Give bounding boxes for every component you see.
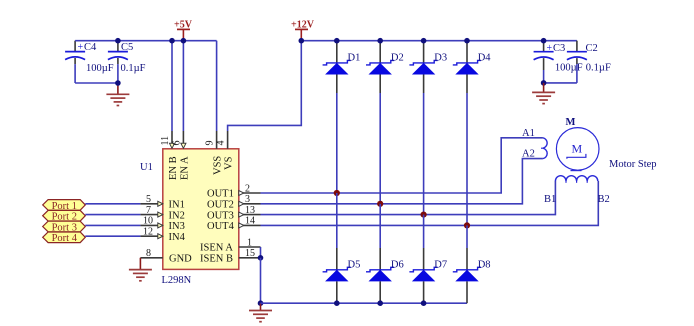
wire pin6 drop xyxy=(182,41,184,131)
svg-text:EN B: EN B xyxy=(168,156,179,180)
svg-text:IN3: IN3 xyxy=(169,221,185,232)
svg-text:IN1: IN1 xyxy=(169,200,185,211)
svg-text:C3: C3 xyxy=(553,43,565,54)
pin 9 VSS xyxy=(205,131,224,175)
svg-text:D8: D8 xyxy=(478,259,491,270)
wire D4 to OUT4 row xyxy=(466,93,468,225)
pin 10 IN3 xyxy=(140,216,184,233)
pin 8 GND xyxy=(140,248,192,265)
wire +5V rail xyxy=(75,40,217,42)
diode D3 xyxy=(409,41,447,93)
svg-text:IN2: IN2 xyxy=(169,210,185,221)
svg-text:0.1µF: 0.1µF xyxy=(121,63,146,74)
svg-text:6: 6 xyxy=(171,141,182,146)
port Port1 xyxy=(43,200,86,212)
wire D8 column xyxy=(466,225,468,248)
wire D6 column xyxy=(379,204,381,248)
svg-text:VS: VS xyxy=(224,156,235,170)
diode D5 xyxy=(323,248,361,303)
svg-text:OUT2: OUT2 xyxy=(207,200,234,211)
wire OUT2 to A2 xyxy=(261,159,543,204)
svg-text:4: 4 xyxy=(216,141,227,146)
capacitor C4 xyxy=(65,41,114,83)
ground at pin 8 xyxy=(129,258,152,281)
svg-text:C4: C4 xyxy=(84,42,97,53)
node D6 bottom junction xyxy=(377,300,383,306)
svg-text:2: 2 xyxy=(245,183,250,194)
svg-text:IN4: IN4 xyxy=(169,232,186,243)
svg-text:7: 7 xyxy=(146,205,151,216)
diode D6 xyxy=(366,248,404,303)
inductor winding B xyxy=(544,176,610,205)
svg-text:Motor Step: Motor Step xyxy=(609,159,657,170)
svg-text:A1: A1 xyxy=(522,128,535,139)
svg-text:A2: A2 xyxy=(522,149,535,160)
pin 5 IN1 xyxy=(140,194,184,211)
ground under C3 xyxy=(532,83,555,104)
svg-text:+: + xyxy=(78,42,84,53)
node OUT3 junction xyxy=(421,212,427,218)
diode D2 xyxy=(366,41,404,93)
node pin6 +5V junction xyxy=(181,38,187,44)
wire bottom rail xyxy=(261,302,468,304)
node OUT4 junction xyxy=(464,222,470,228)
wire pin1 to pin15 column xyxy=(260,247,262,258)
node OUT1 junction xyxy=(334,190,340,196)
wire Port3 to IN3 xyxy=(85,224,140,226)
svg-text:U1: U1 xyxy=(140,162,153,173)
wire +12V rail xyxy=(301,40,577,42)
svg-text:ISEN A: ISEN A xyxy=(200,243,233,254)
node OUT2 junction xyxy=(377,201,383,207)
op-amp U1 L298N body xyxy=(140,149,239,286)
motor M circle xyxy=(556,117,656,171)
svg-text:D6: D6 xyxy=(391,259,404,270)
svg-text:3: 3 xyxy=(245,194,250,205)
svg-text:14: 14 xyxy=(245,216,255,227)
wire D7 column xyxy=(423,215,425,248)
wire pin11 drop xyxy=(171,41,173,131)
diode D7 xyxy=(409,248,447,303)
port Port3 xyxy=(43,221,86,233)
inductor winding A xyxy=(522,128,547,160)
svg-text:1: 1 xyxy=(247,237,252,248)
ground at ISEN xyxy=(249,303,272,322)
svg-text:0.1µF: 0.1µF xyxy=(586,63,611,74)
wire OUT1 to A1 xyxy=(261,138,543,193)
svg-text:11: 11 xyxy=(160,136,171,146)
wire C4-C5 bottom xyxy=(75,82,118,84)
node D5 bottom junction xyxy=(334,300,340,306)
pin 12 IN4 xyxy=(140,226,185,243)
pin 6 EN A xyxy=(171,131,190,180)
svg-text:Port 4: Port 4 xyxy=(52,233,78,244)
svg-text:B1: B1 xyxy=(544,194,556,205)
svg-text:15: 15 xyxy=(245,248,255,259)
svg-text:13: 13 xyxy=(245,205,255,216)
wire +12V to pin 4 xyxy=(228,41,302,131)
wire D1 to OUT1 row xyxy=(336,93,338,193)
wire D2 to OUT2 row xyxy=(379,93,381,204)
svg-text:GND: GND xyxy=(169,254,192,265)
pin 13 OUT3 xyxy=(207,205,261,221)
svg-text:C2: C2 xyxy=(586,43,598,54)
power +5V xyxy=(174,20,193,41)
pin 14 OUT4 xyxy=(207,216,261,232)
node bottom ground junction xyxy=(258,300,264,306)
svg-text:D4: D4 xyxy=(478,53,492,64)
pin 1 ISEN A xyxy=(200,237,261,253)
node D7 bottom junction xyxy=(421,300,427,306)
port Port2 xyxy=(43,210,86,222)
pin 2 OUT1 xyxy=(207,183,261,199)
wire OUT3 to B1 xyxy=(261,181,556,215)
svg-text:D5: D5 xyxy=(348,259,361,270)
node C3 top junction xyxy=(541,38,547,44)
capacitor C2 xyxy=(567,41,611,83)
svg-text:C5: C5 xyxy=(121,42,133,53)
wire C3-C2 bottom xyxy=(544,82,577,84)
node pin11 junction xyxy=(169,38,175,44)
pin 11 EN B xyxy=(160,131,179,180)
svg-text:L298N: L298N xyxy=(162,275,192,286)
pin 15 ISEN B xyxy=(200,248,261,264)
svg-text:ISEN B: ISEN B xyxy=(200,254,233,265)
wire Port2 to IN2 xyxy=(85,214,140,216)
node C5 top junction xyxy=(115,38,121,44)
wire Port1 to IN1 xyxy=(85,203,140,205)
wire pin9 drop xyxy=(216,41,218,131)
svg-text:10: 10 xyxy=(143,216,153,227)
svg-text:100µF: 100µF xyxy=(555,63,583,74)
svg-text:EN A: EN A xyxy=(179,156,190,180)
svg-text:VSS: VSS xyxy=(213,156,224,175)
node +12V junction xyxy=(299,38,305,44)
svg-text:D2: D2 xyxy=(391,53,404,64)
pin 7 IN2 xyxy=(140,205,184,222)
power +12V xyxy=(291,20,315,41)
wire D5 column xyxy=(336,193,338,248)
svg-text:B2: B2 xyxy=(598,194,610,205)
diode D1 xyxy=(323,41,361,93)
node D4 rail junction xyxy=(464,38,470,44)
svg-text:12: 12 xyxy=(143,226,153,237)
svg-text:OUT4: OUT4 xyxy=(207,221,235,232)
node D3 rail junction xyxy=(421,38,427,44)
svg-text:D3: D3 xyxy=(434,53,447,64)
capacitor C3 xyxy=(534,41,583,83)
node D1 rail junction xyxy=(334,38,340,44)
pin 4 VS xyxy=(216,131,235,170)
svg-text:5: 5 xyxy=(146,194,151,205)
node C5 bottom junction xyxy=(115,80,121,86)
svg-text:M: M xyxy=(566,117,576,128)
port Port4 xyxy=(43,232,86,244)
svg-text:OUT1: OUT1 xyxy=(207,189,234,200)
capacitor C5 xyxy=(108,41,146,83)
svg-text:D7: D7 xyxy=(434,259,447,270)
diode D4 xyxy=(453,41,491,93)
wire OUT4 to B2 xyxy=(261,181,599,225)
wire pin15 down to bottom rail xyxy=(260,258,262,303)
ground under C5 xyxy=(106,83,129,106)
svg-text:8: 8 xyxy=(146,248,151,259)
svg-text:D1: D1 xyxy=(348,53,361,64)
svg-text:100µF: 100µF xyxy=(86,63,114,74)
diode D8 xyxy=(453,248,491,303)
svg-text:+: + xyxy=(547,43,553,54)
node pin1/15 junction xyxy=(258,255,264,261)
wire Port4 to IN4 xyxy=(85,235,140,237)
node C3 bottom junction xyxy=(541,80,547,86)
node D2 rail junction xyxy=(377,38,383,44)
svg-text:M: M xyxy=(572,142,583,156)
wire D3 to OUT3 row xyxy=(423,93,425,215)
pin 3 OUT2 xyxy=(207,194,261,210)
svg-text:OUT3: OUT3 xyxy=(207,210,234,221)
svg-text:9: 9 xyxy=(205,141,216,146)
